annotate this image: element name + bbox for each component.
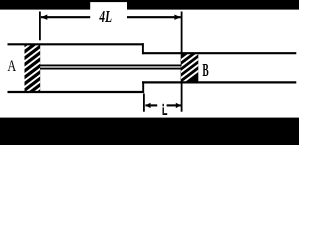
bottom black border bar bbox=[0, 118, 299, 145]
bar: bottom line of small section bbox=[142, 81, 296, 83]
svg-text:4L: 4L bbox=[99, 7, 112, 26]
svg-text:A: A bbox=[7, 58, 16, 75]
bar: top line of large section bbox=[8, 43, 144, 45]
wall B hatch block bbox=[178, 46, 200, 86]
dimension 4L: dimension line bbox=[41, 16, 181, 18]
dimension 4L: left arrowhead bbox=[41, 15, 47, 20]
wall A hatch block bbox=[20, 35, 42, 103]
dimension L: dimension line left segment bbox=[145, 104, 157, 106]
dimension 4L: right arrowhead bbox=[174, 15, 180, 20]
bar: step bottom vertical bbox=[142, 81, 144, 93]
dimension L: left arrowhead bbox=[145, 103, 150, 108]
bar: bottom line of large section bbox=[8, 91, 144, 93]
inner rod lower line bbox=[40, 68, 182, 70]
dimension L: left extension line bbox=[143, 94, 145, 112]
dimension L: right arrowhead bbox=[176, 103, 181, 108]
white notch / label box for 4L bbox=[90, 2, 127, 21]
dimension 4L: left extension line bbox=[39, 12, 41, 41]
inner rod upper line bbox=[40, 64, 182, 66]
dimension L: dimension line right segment bbox=[167, 104, 181, 106]
label L (drawn glyph) bbox=[163, 104, 168, 115]
svg-text:B: B bbox=[202, 60, 208, 80]
bar: step top vertical bbox=[142, 43, 144, 54]
bar: top line of small section bbox=[142, 52, 296, 54]
top black border bar bbox=[0, 0, 299, 10]
dimension 4L: right extension line (runs down to L dimension) bbox=[181, 12, 183, 112]
